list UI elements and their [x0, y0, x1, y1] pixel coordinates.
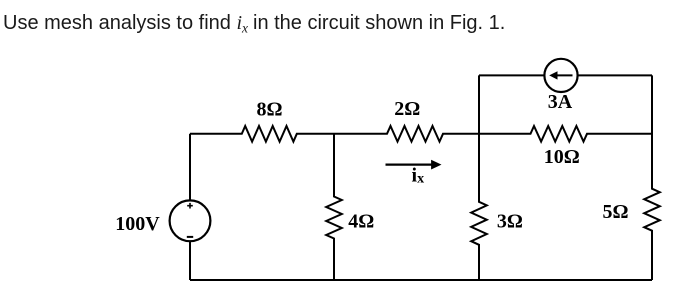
- svg-text:8Ω: 8Ω: [256, 98, 282, 120]
- svg-text:100V: 100V: [115, 213, 160, 235]
- svg-text:3Ω: 3Ω: [497, 211, 523, 233]
- svg-text:5Ω: 5Ω: [602, 201, 628, 223]
- svg-text:2Ω: 2Ω: [394, 98, 420, 120]
- svg-text:10Ω: 10Ω: [544, 146, 580, 168]
- svg-text:3A: 3A: [548, 91, 573, 113]
- svg-text:4Ω: 4Ω: [348, 211, 374, 233]
- svg-text:Use mesh analysis to find ix i: Use mesh analysis to find ix in the circ…: [3, 12, 505, 36]
